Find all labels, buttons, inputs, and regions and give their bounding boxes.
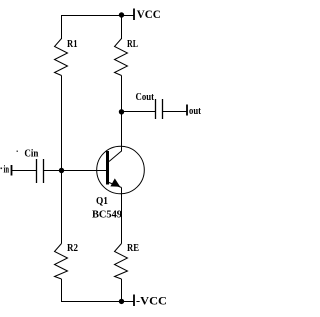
transistor Q1 collector diagonal bbox=[109, 151, 122, 162]
svg-text:out: out bbox=[189, 106, 201, 117]
svg-text:-VCC: -VCC bbox=[136, 296, 167, 308]
wire Cout left bbox=[122, 111, 156, 113]
capacitor Cout bbox=[156, 99, 163, 119]
power terminal +VCC bar bbox=[133, 9, 135, 21]
svg-text:BC549: BC549 bbox=[92, 210, 122, 221]
wire input left bbox=[12, 170, 37, 172]
node bottom junction dot bbox=[119, 299, 124, 304]
svg-text:RE: RE bbox=[127, 243, 139, 254]
transistor Q1 circle bbox=[97, 146, 145, 194]
wire base bbox=[43, 170, 107, 172]
transistor Q1 emitter diagonal bbox=[109, 183, 122, 188]
svg-text:Cin: Cin bbox=[24, 149, 38, 160]
wire left rail lower (R2 bottom to corner) bbox=[61, 279, 63, 302]
stray dot near Cin bbox=[17, 151, 19, 153]
svg-text:RL: RL bbox=[127, 39, 138, 50]
wire top rail bbox=[61, 15, 134, 17]
svg-text:VCC: VCC bbox=[137, 9, 161, 21]
capacitor Cin bbox=[37, 159, 44, 183]
terminal out bar bbox=[186, 105, 188, 116]
svg-text:R1: R1 bbox=[67, 39, 78, 50]
power terminal -VCC bar bbox=[133, 295, 135, 307]
svg-text:Cout: Cout bbox=[136, 92, 155, 103]
node collector junction dot bbox=[119, 109, 124, 114]
terminal in bar bbox=[11, 165, 13, 176]
wire bottom rail bbox=[61, 301, 134, 303]
wire RE bottom to bottom rail bbox=[121, 279, 123, 302]
wire left rail upper stub bbox=[61, 15, 63, 39]
wire left rail middle (R1 bottom to R2 top) bbox=[61, 76, 63, 244]
transistor Q1 emitter arrow bbox=[110, 178, 120, 186]
resistor RE bbox=[115, 244, 128, 280]
resistor RL bbox=[115, 39, 128, 76]
stray dot left edge bbox=[1, 168, 3, 170]
wire emitter rail (transistor to RE) bbox=[121, 188, 123, 244]
resistor R2 bbox=[55, 244, 68, 280]
svg-text:in: in bbox=[4, 165, 10, 176]
node base junction dot bbox=[59, 168, 64, 173]
node top junction dot bbox=[119, 12, 124, 17]
resistor R1 bbox=[55, 39, 68, 76]
wire Cout right bbox=[163, 111, 188, 113]
svg-text:Q1: Q1 bbox=[96, 196, 108, 207]
svg-text:R2: R2 bbox=[67, 243, 78, 254]
wire collector rail (RL bottom to transistor) bbox=[121, 76, 123, 152]
wire RL rail upper stub bbox=[121, 15, 123, 39]
transistor Q1 base bar bbox=[106, 151, 109, 185]
